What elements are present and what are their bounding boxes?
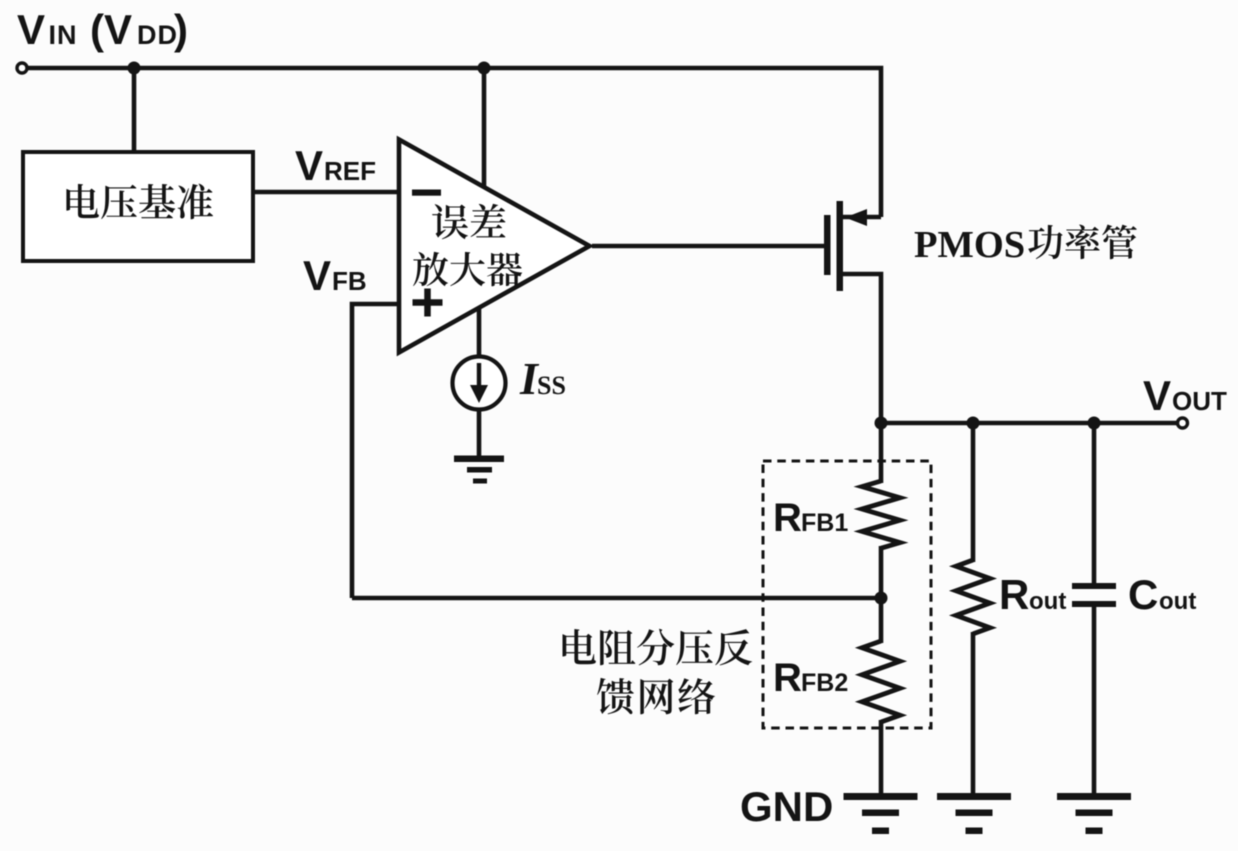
wire: output rail to VOUT terminal: [881, 421, 1177, 426]
output terminal VOUT: [1178, 418, 1188, 428]
PMOS source arrow (points into gate): [845, 209, 867, 226]
svg-text:DD: DD: [137, 20, 178, 50]
svg-text:R: R: [999, 571, 1029, 618]
wire: PMOS drain segment and drain down to output node: [843, 274, 881, 423]
junction: output rail / Rout: [967, 417, 980, 430]
svg-text:): ): [174, 6, 188, 53]
capacitor Cout top plate: [1072, 583, 1116, 589]
svg-text:out: out: [1029, 588, 1066, 615]
dashed box: resistor divider feedback network: [763, 461, 931, 728]
wire: feedback line from divider tap to VFB: [352, 596, 881, 601]
wire: Cout bottom plate to ground: [1092, 606, 1097, 796]
input terminal VIN: [17, 63, 27, 73]
op-amp label 误差: [432, 204, 468, 239]
svg-text:R: R: [773, 656, 802, 700]
svg-text:FB2: FB2: [801, 669, 848, 697]
wire: error amp output to PMOS gate: [592, 244, 826, 249]
PMOS channel bar: [837, 201, 844, 291]
svg-text:(V: (V: [90, 6, 132, 53]
voltage reference block U2 电压基准: [23, 152, 253, 261]
svg-text:V: V: [1143, 372, 1171, 419]
wire: output rail down to Cout top plate: [1092, 423, 1097, 586]
wire: output rail down to Rout: [971, 423, 976, 562]
op-amp U1 error amplifier triangle: [399, 140, 590, 353]
svg-text:C: C: [1128, 571, 1158, 618]
wire: Rout bottom to ground: [971, 632, 976, 796]
wire: output node down to RFB1: [879, 423, 884, 483]
current source arrow: [477, 363, 481, 391]
svg-text:FB: FB: [332, 266, 367, 296]
svg-text:V: V: [17, 6, 45, 53]
capacitor Cout bottom plate: [1072, 601, 1116, 607]
wire: RFB1 bottom to feedback tap to RFB2 top: [879, 546, 884, 643]
wire: VFB into error amp non-inverting input: [352, 304, 400, 598]
ground (ISS tail): [454, 456, 504, 484]
op-amp non-inverting input plus sign: [413, 289, 443, 317]
op-amp label 放大器: [413, 252, 448, 286]
wire: op-amp positive supply from top rail: [482, 68, 487, 190]
resistor Rout zigzag: [956, 560, 990, 634]
wire: PMOS source segment: [843, 215, 881, 220]
svg-text:R: R: [773, 496, 802, 540]
junction: output rail / Cout: [1088, 417, 1101, 430]
ground (Cout): [1057, 793, 1131, 834]
resistor RFB2 zigzag: [862, 641, 900, 722]
ground (RFB2 / GND): [844, 793, 918, 834]
wire: top rail drop to voltage reference box: [132, 68, 137, 156]
ground (Rout): [937, 793, 1011, 834]
wire: VREF from voltage reference output to error amp inverting input: [253, 190, 400, 195]
transistor M1 PMOS pass device: gate bar: [824, 215, 831, 275]
wire: current source to ground: [477, 408, 482, 458]
svg-text:OUT: OUT: [1172, 386, 1227, 416]
svg-text:REF: REF: [324, 156, 376, 186]
junction: feedback tap: [875, 592, 888, 605]
junction: output node / RFB1: [875, 417, 888, 430]
wire: RFB2 bottom to ground: [879, 720, 884, 796]
svg-text:out: out: [1159, 588, 1196, 615]
svg-text:SS: SS: [537, 371, 566, 400]
resistor RFB1 zigzag: [862, 481, 900, 548]
svg-text:V: V: [303, 252, 331, 299]
svg-text:GND: GND: [740, 783, 833, 830]
wire: VIN top supply rail from input terminal to PMOS source, corner down to source: [28, 68, 882, 217]
wire: op-amp tail to current source ISS: [477, 306, 482, 358]
svg-text:FB1: FB1: [801, 509, 848, 537]
label 电阻分压反馈网络: [563, 629, 596, 664]
svg-text:IN: IN: [49, 20, 78, 50]
current source ISS circle: [453, 357, 506, 410]
junction: rail / op-amp supply: [478, 62, 491, 75]
svg-text:PMOS: PMOS: [914, 224, 1025, 266]
op-amp inverting input minus sign: [412, 190, 441, 196]
svg-text:V: V: [295, 142, 323, 189]
junction: rail / voltage reference: [128, 62, 141, 75]
